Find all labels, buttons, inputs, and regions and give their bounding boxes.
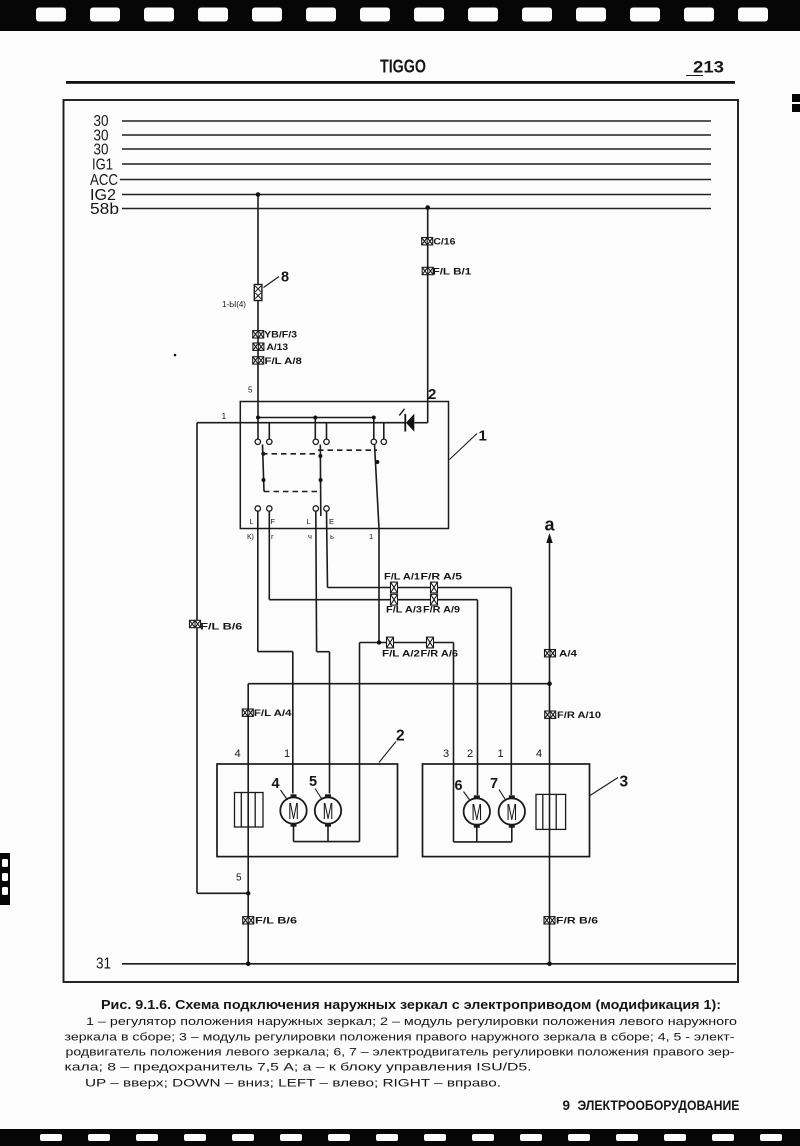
svg-text:8: 8 <box>281 270 289 286</box>
svg-text:IG1: IG1 <box>92 157 113 174</box>
svg-text:F: F <box>271 517 276 526</box>
svg-text:Рис. 9.1.6. Схема подключения: Рис. 9.1.6. Схема подключения наружных з… <box>101 997 721 1012</box>
svg-text:YB/F/3: YB/F/3 <box>264 330 297 340</box>
svg-text:213: 213 <box>693 58 724 77</box>
svg-text:кала; 8 – предохранитель 7,5 А: кала; 8 – предохранитель 7,5 А; а – к бл… <box>65 1062 532 1074</box>
svg-text:31: 31 <box>96 956 111 973</box>
svg-text:5: 5 <box>248 386 253 395</box>
svg-text:4: 4 <box>536 748 542 760</box>
svg-text:7: 7 <box>490 776 498 792</box>
svg-text:ь: ь <box>330 532 334 541</box>
svg-text:F/R A/5: F/R A/5 <box>421 572 463 582</box>
svg-text:3: 3 <box>620 774 629 791</box>
svg-text:родвигатель положения левого з: родвигатель положения левого зеркала; 6,… <box>66 1047 735 1059</box>
svg-text:4: 4 <box>272 776 280 792</box>
svg-text:E: E <box>329 517 334 526</box>
svg-text:4: 4 <box>235 748 241 760</box>
svg-text:F/L B/6: F/L B/6 <box>200 622 242 632</box>
svg-text:г: г <box>271 532 274 541</box>
svg-text:C/16: C/16 <box>433 237 455 247</box>
svg-text:6: 6 <box>455 778 463 794</box>
svg-text:1-Ы(4): 1-Ы(4) <box>222 300 246 309</box>
svg-text:3: 3 <box>443 748 449 760</box>
svg-text:ЭЛЕКТРООБОРУДОВАНИЕ: ЭЛЕКТРООБОРУДОВАНИЕ <box>578 1098 740 1113</box>
svg-text:F/L A/3: F/L A/3 <box>386 605 422 615</box>
svg-text:5: 5 <box>236 873 242 884</box>
svg-text:F/R B/6: F/R B/6 <box>556 916 598 926</box>
svg-text:F/L A/1: F/L A/1 <box>384 572 420 582</box>
svg-text:1: 1 <box>222 411 227 421</box>
svg-text:F/L A/4: F/L A/4 <box>254 708 292 718</box>
svg-text:2: 2 <box>467 748 473 760</box>
svg-text:1 – регулятор положения наружн: 1 – регулятор положения наружных зеркал;… <box>86 1016 737 1028</box>
svg-text:L: L <box>307 517 311 526</box>
svg-text:зеркала в сборе; 3 – модуль ре: зеркала в сборе; 3 – модуль регулировки … <box>65 1032 735 1044</box>
svg-text:A/4: A/4 <box>559 649 577 659</box>
svg-text:F/L B/1: F/L B/1 <box>433 267 472 277</box>
svg-text:F/L B/6: F/L B/6 <box>255 916 297 926</box>
svg-text:A/13: A/13 <box>267 342 289 352</box>
svg-text:UP – вверх; DOWN – вниз; LEFT: UP – вверх; DOWN – вниз; LEFT – влево; R… <box>85 1078 501 1090</box>
svg-text:2: 2 <box>396 728 405 745</box>
svg-text:К): К) <box>247 532 254 541</box>
svg-text:а: а <box>545 515 556 535</box>
svg-text:F/L A/8: F/L A/8 <box>265 356 302 366</box>
svg-text:1: 1 <box>479 428 487 445</box>
svg-text:5: 5 <box>309 774 317 790</box>
svg-text:1: 1 <box>498 748 504 760</box>
svg-text:ч: ч <box>308 532 312 541</box>
svg-text:1: 1 <box>284 748 290 760</box>
svg-text:1: 1 <box>369 532 373 541</box>
svg-text:L: L <box>250 517 254 526</box>
svg-text:F/R A/10: F/R A/10 <box>557 710 601 720</box>
svg-text:F/R A/6: F/R A/6 <box>421 649 459 659</box>
svg-text:TIGGO: TIGGO <box>380 57 426 77</box>
svg-text:F/L A/2: F/L A/2 <box>382 649 420 659</box>
svg-text:2: 2 <box>428 386 436 403</box>
svg-text:58b: 58b <box>90 201 119 218</box>
svg-text:9: 9 <box>563 1098 571 1113</box>
svg-text:F/R A/9: F/R A/9 <box>423 605 460 615</box>
